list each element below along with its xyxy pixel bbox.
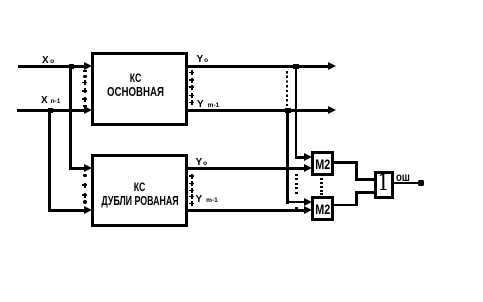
arrowhead into M2b top input [304, 198, 312, 206]
block U2 KC duplicated [91, 154, 188, 227]
node X0 junction dot [69, 64, 74, 69]
wire M2a output vertical [355, 161, 358, 181]
arrowhead into M2b bottom input [304, 206, 312, 214]
ellipsis marks right of KC main outputs [189, 70, 194, 75]
comparator M2b [311, 196, 335, 221]
ellipsis marks left of KC dup inputs [83, 174, 87, 178]
ellipsis marks right of KC dup outputs [189, 174, 194, 179]
wire jog into M2b top input [286, 201, 305, 204]
arrowhead into M2a bottom input [304, 164, 312, 172]
ellipsis dotted column left of M2 boxes [295, 174, 298, 176]
wire Ym-1 main output line [187, 109, 329, 112]
label M2a [313, 157, 331, 171]
comparator M2a [311, 151, 335, 176]
wire X0 input line [18, 65, 85, 68]
wire horizontal into KC dup bottom input [48, 209, 85, 212]
label KC dup line2 [99, 194, 181, 207]
arrowhead into KC dup, top input [84, 164, 92, 172]
wire M2a output [334, 161, 358, 164]
node Xn-1 junction dot [48, 108, 53, 113]
wire Ym-1 dup output to M2b [187, 209, 305, 212]
node junction dot on Ym-1 at x288 [285, 108, 291, 114]
wire M2b output vertical [355, 191, 358, 207]
OR gate 1 [374, 171, 394, 200]
wire error output [394, 182, 419, 185]
ellipsis marks left of KC main inputs [83, 70, 87, 72]
label KC dup line1 [104, 181, 175, 193]
arrowhead into KC dup, bottom input [84, 206, 92, 214]
wire Y0 dup output to M2a [187, 167, 305, 170]
label Y0 main [197, 55, 209, 65]
label KC main line1 [100, 72, 171, 84]
arrowhead into KC main, input X0 [84, 62, 92, 70]
node output terminal dot [418, 180, 424, 186]
label osh [396, 171, 410, 183]
label Ym-1 dup [196, 195, 218, 205]
wire M2b output [334, 204, 358, 207]
label Y0 dup [196, 158, 208, 168]
arrowhead Y0 main output [328, 62, 336, 70]
label 1 [376, 169, 391, 195]
arrowhead into KC main, input Xn-1 [84, 106, 92, 114]
arrowhead into M2a top input [304, 153, 312, 161]
ellipsis dotted column between M2 boxes [320, 178, 323, 180]
wire vertical from X0 junction down [69, 66, 72, 169]
label Ym-1 main [197, 100, 219, 110]
label Xn-1 [41, 96, 60, 106]
wire into OR gate top input [355, 178, 374, 181]
wire Y0 main output line [187, 65, 329, 68]
dashed wire segment between main outputs [286, 71, 289, 109]
wire into OR gate bottom input [355, 191, 374, 194]
block U1 KC main [91, 52, 188, 126]
wire vertical from Xn-1 junction down [48, 110, 51, 212]
node junction dot on Y0 at x296 [293, 64, 299, 70]
arrowhead Ym-1 main output [328, 106, 336, 114]
wire jog into M2a top input [295, 156, 305, 159]
wire vertical Y0 tap down to M2a [295, 66, 298, 159]
label M2b [313, 202, 331, 216]
wire Xn-1 input line [17, 109, 85, 112]
label X0 [42, 56, 54, 66]
label KC main line2 [99, 85, 171, 98]
wire vertical Ym-1 tap down to M2b [286, 110, 289, 204]
wire horizontal into KC dup top input [69, 167, 85, 170]
